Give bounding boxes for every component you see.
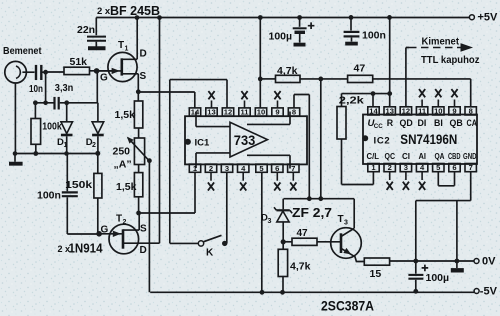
svg-text:13: 13 xyxy=(385,107,393,116)
svg-text:6: 6 xyxy=(452,163,456,172)
svg-text:150k: 150k xyxy=(65,179,92,191)
svg-text:CI: CI xyxy=(402,151,410,161)
svg-text:R: R xyxy=(387,118,394,128)
svg-text:100µ: 100µ xyxy=(269,31,293,43)
svg-text:-5V: -5V xyxy=(480,285,498,297)
svg-text:IC2: IC2 xyxy=(374,136,391,147)
svg-text:3,3n: 3,3n xyxy=(55,82,74,94)
svg-text:T: T xyxy=(118,40,124,51)
svg-text:3: 3 xyxy=(268,218,272,225)
svg-text:G: G xyxy=(101,225,109,236)
svg-text:2SC387A: 2SC387A xyxy=(321,298,374,314)
svg-text:14: 14 xyxy=(369,107,378,116)
svg-text:4,7k: 4,7k xyxy=(277,65,298,77)
svg-text:ZF 2,7: ZF 2,7 xyxy=(292,205,332,220)
svg-text:733: 733 xyxy=(234,133,256,148)
svg-text:2: 2 xyxy=(92,142,96,149)
svg-text:8: 8 xyxy=(469,107,473,116)
svg-text:47: 47 xyxy=(354,63,366,75)
svg-text:2: 2 xyxy=(388,163,392,172)
svg-text:QB: QB xyxy=(450,118,463,128)
svg-text:CA: CA xyxy=(467,118,478,128)
svg-text:AI: AI xyxy=(419,151,427,161)
svg-text:S: S xyxy=(140,224,147,235)
svg-text:T: T xyxy=(338,214,344,225)
svg-text:11: 11 xyxy=(418,107,427,116)
svg-text:CC: CC xyxy=(374,123,383,130)
svg-text:250: 250 xyxy=(113,146,131,158)
svg-text:2 x: 2 x xyxy=(97,6,111,17)
svg-text:IC1: IC1 xyxy=(195,138,211,149)
svg-text:22n: 22n xyxy=(77,24,95,36)
svg-text:1,5k: 1,5k xyxy=(116,181,137,193)
svg-text:2: 2 xyxy=(123,219,127,226)
svg-text:51k: 51k xyxy=(70,56,88,68)
svg-text:6: 6 xyxy=(275,164,279,173)
svg-text:BF 245B: BF 245B xyxy=(110,3,160,18)
svg-text:3: 3 xyxy=(344,220,348,227)
svg-text:QD: QD xyxy=(400,118,413,128)
svg-text:S: S xyxy=(140,71,147,82)
svg-text:10: 10 xyxy=(434,107,442,116)
svg-text:BI: BI xyxy=(434,118,443,128)
svg-text:3: 3 xyxy=(225,164,229,173)
svg-text:10: 10 xyxy=(257,108,265,117)
svg-text:13: 13 xyxy=(207,108,215,117)
svg-text:„A”: „A” xyxy=(114,159,132,171)
svg-text:15: 15 xyxy=(370,268,382,280)
svg-text:0V: 0V xyxy=(482,256,496,268)
svg-text:G: G xyxy=(100,72,108,83)
svg-text:100n: 100n xyxy=(362,30,386,42)
svg-text:K: K xyxy=(206,248,214,259)
svg-text:2,2k: 2,2k xyxy=(339,95,364,107)
svg-text:14: 14 xyxy=(191,108,200,117)
svg-text:10n: 10n xyxy=(29,83,43,95)
svg-text:100n: 100n xyxy=(37,190,61,202)
svg-text:3: 3 xyxy=(404,163,408,172)
svg-text:CBD: CBD xyxy=(448,151,461,161)
svg-text:D: D xyxy=(140,49,147,60)
svg-text:1: 1 xyxy=(64,142,68,149)
svg-text:C/L: C/L xyxy=(367,151,380,161)
svg-text:1: 1 xyxy=(125,46,129,53)
svg-text:7: 7 xyxy=(291,164,295,173)
svg-text:7: 7 xyxy=(469,163,473,172)
svg-text:9: 9 xyxy=(275,108,279,117)
svg-text:SN74196N: SN74196N xyxy=(400,131,457,147)
svg-text:+5V: +5V xyxy=(478,12,499,24)
svg-text:8: 8 xyxy=(292,108,296,117)
svg-text:4,7k: 4,7k xyxy=(290,261,311,273)
svg-text:Bemenet: Bemenet xyxy=(3,45,42,57)
svg-text:2: 2 xyxy=(209,164,213,173)
svg-text:11: 11 xyxy=(240,108,249,117)
svg-text:100k: 100k xyxy=(42,121,62,132)
svg-text:100µ: 100µ xyxy=(426,272,450,284)
svg-text:9: 9 xyxy=(452,107,456,116)
svg-text:QA: QA xyxy=(435,151,445,161)
svg-text:47: 47 xyxy=(297,228,309,239)
svg-text:12: 12 xyxy=(402,107,410,116)
svg-text:Kimenet: Kimenet xyxy=(422,36,460,48)
svg-text:T: T xyxy=(116,214,122,225)
svg-text:1N914: 1N914 xyxy=(69,240,104,255)
svg-text:TTL kapuhoz: TTL kapuhoz xyxy=(421,54,480,66)
svg-text:D: D xyxy=(140,245,147,256)
svg-text:DI: DI xyxy=(418,118,427,128)
svg-text:GND: GND xyxy=(463,151,477,161)
svg-text:1,5k: 1,5k xyxy=(115,109,136,121)
svg-text:12: 12 xyxy=(224,108,232,117)
svg-text:QC: QC xyxy=(385,151,396,161)
